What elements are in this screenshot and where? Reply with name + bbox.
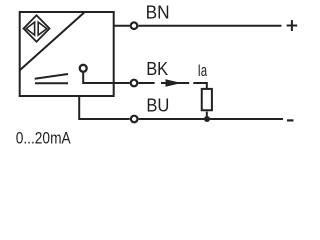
sensor body U1: [20, 12, 114, 96]
inductive sensing symbol: left triangle: [26, 22, 34, 35]
analog output symbol: slanted line: [35, 74, 68, 79]
terminal BN: [131, 22, 138, 29]
wire: BU terminal to -: [139, 118, 283, 120]
wire: arrow to resistor: [193, 83, 207, 88]
plus sign: [287, 20, 298, 31]
current arrow Ia tail: [161, 82, 189, 84]
wire: box bottom to BU terminal: [79, 97, 130, 119]
minus sign: [287, 119, 294, 121]
load resistor bottom lead: [206, 112, 208, 119]
terminal BK: [131, 80, 138, 87]
sensor body diagonal divider: [20, 13, 84, 71]
wire: output circle to BK terminal: [83, 72, 130, 83]
svg-text:Ia: Ia: [198, 61, 208, 80]
svg-text:BK: BK: [146, 59, 168, 79]
svg-text:BU: BU: [146, 95, 169, 115]
wire: box to BN terminal: [114, 25, 130, 27]
wire: BN terminal to +: [138, 25, 281, 27]
inductive sensing symbol: diamond: [24, 15, 50, 41]
current arrow Ia head: [166, 79, 182, 86]
load resistor body: [202, 89, 212, 110]
inductive sensing symbol: right triangle: [38, 22, 47, 35]
analog output symbol: base line: [35, 82, 68, 84]
output circle (analog output pin): [80, 65, 87, 72]
terminal BU: [131, 116, 138, 123]
junction node: resistor to BU: [204, 116, 210, 122]
wire: BK terminal to arrow: [138, 82, 154, 84]
svg-text:0...20mA: 0...20mA: [16, 128, 72, 147]
svg-text:BN: BN: [146, 3, 170, 23]
